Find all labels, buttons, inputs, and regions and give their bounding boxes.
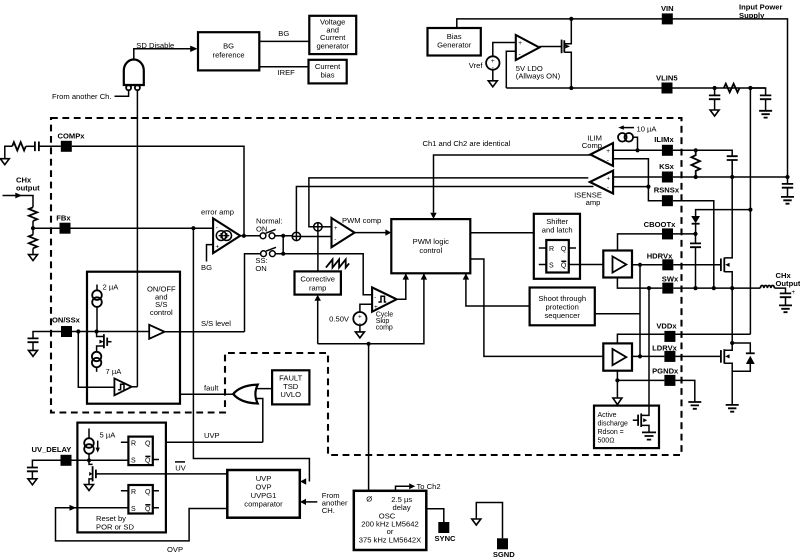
transistor LDO pass FET (562, 19, 572, 88)
svg-text:VDDx: VDDx (656, 322, 677, 331)
latch RS OVP (lower) (121, 485, 159, 514)
svg-text:sequencer: sequencer (544, 311, 580, 320)
svg-text:CBOOTx: CBOOTx (644, 220, 676, 229)
svg-text:SGND: SGND (493, 550, 515, 559)
current source 2 uA (92, 285, 102, 332)
svg-text:+: + (606, 175, 610, 182)
svg-text:SD Disable: SD Disable (136, 41, 174, 50)
svg-text:BG: BG (201, 263, 212, 272)
wire PWM logic to LDRV driver (470, 259, 603, 356)
wire shoot-through to PWM logic (arrow up) (466, 274, 530, 306)
node KS cap bottom (730, 175, 734, 179)
svg-text:amp: amp (586, 198, 601, 207)
ground (arrow) soft start cap (29, 350, 38, 356)
node common COMP node (281, 234, 285, 238)
wire HDRVx to high-side FET gate (673, 264, 721, 266)
ground (arrow) UV FET source (85, 485, 94, 491)
resistor VLIN5 filter (724, 84, 740, 93)
svg-text:ON: ON (256, 224, 267, 233)
svg-text:POR or SD: POR or SD (96, 523, 134, 532)
svg-text:discharge: discharge (598, 421, 628, 428)
wire ILIM comp output to PWM logic top (arrow down) (434, 155, 591, 213)
wire From another CH arrow into comparator (306, 501, 318, 503)
svg-text:+: + (215, 244, 219, 251)
pin KSx (659, 162, 675, 183)
wire VIN rail: bias generator top, along top, down right edge (457, 19, 788, 177)
ground (earth) low-side source (726, 405, 739, 412)
op-amp 5V LDO (516, 35, 540, 60)
node HDRV output (638, 263, 642, 267)
ground (arrow) below cap1 (710, 110, 719, 116)
transistor SS discharge FET (97, 332, 112, 352)
node ISENSE minus (646, 185, 650, 189)
wire UV_DELAY external (32, 460, 60, 467)
capacitor output (780, 289, 796, 305)
comparator Cycle Skip comp (372, 287, 397, 311)
wire BG (259, 40, 309, 42)
wire oscillator line to corrective ramp (arrow up) (317, 301, 319, 344)
pin FBx (60, 223, 71, 234)
current source 5 uA (84, 429, 94, 461)
pin SYNC (434, 522, 456, 543)
wire OSC line horizontal and riser into PWM logic (318, 274, 424, 344)
svg-text:generator: generator (316, 41, 349, 50)
wire current sense lower line into minus summing (296, 187, 593, 233)
wire 0.50V to cycle skip plus (360, 304, 372, 312)
wire CBOOTx to bootstrap node (673, 233, 696, 235)
transistor active discharge FET (633, 413, 649, 432)
pin SGND (493, 538, 515, 559)
wire summing to PWM comp minus input (301, 236, 332, 238)
node input rail to KS (785, 175, 789, 179)
svg-text:comp: comp (376, 325, 393, 332)
node VLIN5 rail diode tap (748, 208, 752, 212)
ground (arrow) COMPx network (0, 159, 9, 165)
svg-text:IREF: IREF (278, 68, 296, 77)
current source 7 uA (92, 352, 101, 372)
wire inductor to output cap (774, 288, 785, 293)
latch RS (shifter) (539, 240, 576, 273)
pin RSNSx (654, 186, 680, 207)
svg-text:COMPx: COMPx (58, 132, 86, 141)
node VIN-LDO junction (569, 17, 573, 21)
svg-text:Ø: Ø (366, 495, 372, 504)
wire To Ch2 (arrow) (396, 486, 410, 491)
svg-text:UV: UV (175, 463, 186, 472)
node FB sense tap (191, 226, 195, 230)
svg-text:-: - (216, 225, 218, 232)
diode bootstrap from VLIN5 (691, 210, 750, 234)
wire Vref to op-amp + (493, 43, 516, 57)
svg-text:ILIMx: ILIMx (654, 135, 674, 144)
wire summing node to corrective ramp (317, 231, 319, 271)
wire ILIMx external (673, 150, 732, 156)
ground (earth) below cap2 (759, 111, 772, 118)
summing node PWM comp plus (314, 223, 322, 231)
svg-text:HDRVx: HDRVx (647, 251, 673, 260)
pin ON/SSx (61, 326, 72, 337)
op-amp error amp (213, 218, 240, 253)
Bias Generator box (428, 28, 481, 56)
node SW cboot cap (693, 286, 697, 290)
svg-text:Active: Active (598, 412, 617, 419)
wire From another Ch. to left bubble (115, 90, 129, 96)
svg-text:Corrective: Corrective (300, 274, 335, 283)
node SW active-discharge tap (647, 286, 651, 290)
current source 10 uA (618, 133, 638, 150)
node KS resistor bottom (694, 175, 698, 179)
svg-text:10 µA: 10 µA (637, 125, 658, 134)
svg-text:Ch1 and Ch2 are identical: Ch1 and Ch2 are identical (423, 139, 511, 148)
arrow 5uA direction (97, 441, 99, 450)
svg-text:S: S (549, 263, 554, 270)
wire COMPx to error amp output node (72, 146, 244, 236)
svg-text:Q: Q (145, 458, 151, 465)
ground (arrow) below 0.50V (355, 332, 364, 338)
svg-text:-: - (334, 236, 336, 243)
wire FB to UVP/OVP comparator (193, 228, 309, 481)
IC channel dashed boundary (51, 118, 682, 455)
pin HDRVx (647, 251, 674, 270)
wire FAULT box to OR input (256, 388, 272, 390)
box UVP OVP UVPG1 comparator (227, 470, 299, 518)
node bootstrap (693, 232, 697, 236)
svg-text:output: output (16, 184, 40, 193)
svg-text:+: + (792, 289, 796, 296)
ground (arrow) below Vref (488, 81, 497, 87)
transistor low-side FET (721, 288, 732, 405)
ground (earth) active discharge (642, 432, 656, 439)
svg-text:bias: bias (321, 71, 335, 80)
wire ON/SSx external (33, 332, 61, 339)
node 10uA tap (635, 148, 639, 152)
wire VLIN5 rail down to VDD line (749, 88, 751, 334)
voltage source Vref (486, 56, 499, 71)
svg-text:BG: BG (223, 42, 234, 51)
svg-text:FBx: FBx (56, 213, 71, 222)
svg-text:SWx: SWx (662, 275, 679, 284)
svg-text:+: + (606, 148, 610, 155)
wire cap to COMPx pin (39, 145, 61, 147)
wire S/S level output (165, 331, 245, 333)
comparator ISENSE amp (590, 171, 613, 194)
svg-text:PWM comp: PWM comp (342, 216, 381, 225)
wire OVP feedback loop to latch S (arrow) (56, 508, 228, 541)
wire SW to active discharge FET (641, 288, 649, 415)
svg-text:Vref: Vref (469, 61, 484, 70)
box oscillator OSC (354, 491, 427, 550)
wire COMPx ground corner (5, 146, 12, 158)
wire shoot-through sense tee (595, 313, 640, 315)
node SW rsns (712, 286, 716, 290)
pin UV_DELAY (61, 455, 72, 466)
wire current sense upper line into plus summing (309, 178, 588, 227)
wire switch to summing node (275, 235, 292, 237)
node PGND tee (615, 378, 619, 382)
node SS line (281, 252, 285, 256)
node UV delay (87, 458, 91, 462)
svg-text:VIN: VIN (661, 4, 674, 13)
wire BG input to error amp (207, 245, 214, 262)
wire KSx line (613, 176, 787, 178)
wire AND output to BG reference with arrow (134, 49, 191, 60)
svg-text:From another Ch.: From another Ch. (52, 92, 112, 101)
wire op-amp output to FET gate (539, 46, 561, 48)
svg-text:fault: fault (204, 383, 219, 392)
wire comparator output to SD disable line (132, 386, 138, 388)
diode schottky parallel (732, 343, 755, 371)
wire ILIM comp plus to ILIMx (613, 149, 662, 151)
box Shifter and latch (534, 214, 580, 279)
voltage source 0.50V (353, 312, 366, 327)
sawtooth waveform symbol (326, 259, 349, 267)
node OSC tee (367, 342, 371, 346)
wire VDD to LDRV driver supply (617, 334, 664, 343)
transistor UV discharge FET (89, 460, 96, 484)
pin SWx (662, 275, 679, 294)
wire PGNDx external to ground (675, 380, 694, 402)
wire ILIM comp minus to ISENSE minus node (613, 159, 648, 187)
svg-text:ON/SSx: ON/SSx (52, 316, 81, 325)
comparator ON/SS threshold (hysteresis) (114, 378, 131, 395)
svg-text:+: + (374, 304, 378, 311)
svg-text:S: S (131, 458, 136, 465)
node LDO output (569, 86, 573, 90)
svg-text:+: + (518, 40, 522, 47)
svg-text:-: - (607, 185, 609, 192)
svg-text:KSx: KSx (659, 162, 675, 171)
wire 0.50V to ground (359, 325, 361, 332)
svg-text:(Allways ON): (Allways ON) (516, 72, 561, 81)
wire LDRV box return to PGND (616, 371, 618, 381)
ground (earth) input rail cap (781, 197, 794, 204)
svg-text:Q: Q (561, 246, 567, 253)
wire HDRV output to HDRVx (632, 264, 662, 266)
wire FBx line to error amp (33, 227, 213, 229)
capacitor soft start (28, 338, 39, 350)
svg-text:and latch: and latch (542, 225, 573, 234)
wire VLIN5 line (506, 87, 765, 89)
svg-text:OVP: OVP (167, 545, 183, 554)
svg-text:500Ω: 500Ω (598, 438, 615, 445)
capacitor UV delay (27, 468, 38, 479)
pin CBOOTx (644, 220, 676, 239)
wire OSC vertical to oscillator box (368, 344, 370, 491)
node error amp output (242, 234, 246, 238)
svg-text:Reset by: Reset by (96, 514, 126, 523)
svg-text:Output: Output (776, 279, 800, 288)
svg-text:R: R (131, 489, 136, 496)
svg-text:PWM logic: PWM logic (413, 237, 449, 246)
ground (arrow) UV delay cap (28, 479, 37, 485)
wire SWx external line (673, 287, 760, 289)
wire SGND hook (476, 503, 502, 539)
wire SS line to cycle skip comparator (275, 254, 372, 295)
wire ON/SSx into control (72, 331, 149, 333)
pin PGNDx (652, 367, 679, 386)
comparator ILIM Comp (590, 143, 613, 166)
summing node PWM comp minus (292, 232, 300, 240)
wire error amp output (240, 235, 260, 237)
svg-text:R: R (549, 246, 554, 253)
wire VDDx to VLIN5 rail (675, 333, 750, 335)
wire LDRV output (632, 355, 664, 357)
OR gate fault (mirrored) (233, 385, 258, 404)
ground (arrow) FB divider (29, 255, 38, 261)
wire ISENSE minus to RSNSx (613, 187, 662, 201)
wire HDRV/LDRV sense vertical to shoot-through (639, 265, 641, 357)
wire SW node line (617, 278, 662, 289)
wire CHx output feed with arrow (3, 196, 34, 208)
svg-text:-: - (374, 294, 376, 301)
node VLIN5 filter right (748, 86, 752, 90)
pin ILIMx (654, 135, 674, 156)
svg-text:0.50V: 0.50V (329, 314, 350, 323)
svg-text:7 µA: 7 µA (106, 367, 123, 376)
svg-text:RSNSx: RSNSx (654, 186, 680, 195)
wire OSC to SYNC (426, 509, 444, 522)
wire fault line (180, 393, 233, 395)
wire CBOOT to HDRV driver supply (618, 234, 663, 251)
svg-text:ON: ON (255, 264, 266, 273)
svg-text:375 kHz LM5642X: 375 kHz LM5642X (359, 536, 421, 545)
capacitor VLIN5 bypass 2 (750, 88, 771, 111)
box Active discharge (594, 406, 659, 449)
svg-text:Rdson =: Rdson = (598, 429, 624, 436)
svg-text:-: - (607, 157, 609, 164)
Voltage and Current generator box (309, 16, 356, 54)
svg-text:UV_DELAY: UV_DELAY (32, 445, 72, 454)
arrow 10 uA direction (623, 127, 634, 129)
wire common node down to SS switch line (282, 236, 284, 254)
resistor FB divider upper (29, 207, 37, 221)
wire PGND line (617, 379, 664, 381)
pin VLIN5 (656, 74, 678, 94)
capacitor ILIM-KS filter (727, 156, 738, 177)
node ON/SS comparator tap (76, 329, 80, 333)
ground (earth) PGND (688, 402, 701, 409)
wire PWM comp output to PWM logic (355, 232, 387, 234)
AND gate (SD disable, inverted inputs) (124, 60, 144, 91)
pin VDDx (656, 322, 677, 342)
svg-text:S/S level: S/S level (201, 319, 231, 328)
capacitor bootstrap (690, 234, 701, 288)
svg-text:control: control (150, 308, 173, 317)
wire UV-bar line to FET gate (96, 473, 227, 475)
box FAULT TSD UVLO (272, 370, 309, 404)
label UV bar (175, 462, 187, 472)
wire resistor to cap (26, 145, 35, 147)
svg-text:SYNC: SYNC (434, 534, 456, 543)
svg-text:S: S (131, 506, 136, 513)
svg-text:Comp: Comp (582, 141, 602, 150)
wire to FB node (32, 221, 34, 235)
pin LDRVx (652, 343, 678, 362)
svg-text:-: - (519, 51, 521, 58)
comparator PWM comp (332, 218, 355, 247)
buffer S/S level (149, 325, 164, 339)
wire IREF (259, 66, 308, 68)
svg-text:Q: Q (145, 506, 151, 513)
node ON/SS 2uA tap (95, 329, 99, 333)
svg-text:ramp: ramp (309, 283, 326, 292)
wire op-amp feedback from VLIN5 (506, 51, 516, 88)
svg-text:5 µA: 5 µA (100, 431, 117, 440)
capacitor input rail (782, 177, 793, 197)
Current bias box (309, 60, 347, 84)
switch Normal: ON (260, 229, 276, 238)
capacitor COMPx series (35, 142, 39, 152)
svg-text:+: + (334, 225, 338, 232)
node SW fet source (730, 286, 734, 290)
resistor COMPx network (12, 142, 26, 150)
svg-text:Bias: Bias (447, 32, 462, 41)
svg-text:Generator: Generator (437, 41, 472, 50)
svg-text:Q: Q (145, 489, 151, 496)
wire PWM logic to shifter (470, 232, 534, 234)
capacitor VLIN5 bypass 1 (709, 88, 720, 110)
svg-text:control: control (419, 246, 442, 255)
wire LDRVx to low-side FET gate (675, 355, 721, 357)
ground (earth) output cap (779, 305, 792, 312)
node LDRV output (638, 354, 642, 358)
svg-text:Q: Q (561, 263, 567, 270)
resistor ILIM sense filter (691, 150, 700, 177)
svg-text:LDRVx: LDRVx (652, 343, 678, 352)
wire high-side FET drain from KS line (731, 160, 733, 177)
node VLIN5 filter left (713, 86, 717, 90)
switch SS: ON (261, 247, 276, 256)
BG reference box (198, 32, 259, 70)
box Corrective ramp (295, 271, 341, 294)
wire PGND tee to active discharge (open arrow) (616, 380, 618, 398)
wire latch Qbar to HDRV driver (569, 264, 604, 266)
wire UVP to OR input (256, 399, 263, 443)
svg-text:VLIN5: VLIN5 (656, 74, 678, 83)
node FB divider (31, 226, 35, 230)
node low-side drain diode tap (730, 341, 734, 345)
latch RS UVP (upper) (121, 437, 159, 466)
wire summing to PWM comp plus input (322, 226, 331, 228)
node ILIM resistor top (694, 148, 698, 152)
wire SD disable vertical from right bubble down to fault node (136, 90, 138, 387)
svg-text:PGNDx: PGNDx (652, 367, 679, 376)
wire RSNSx external to SW node (673, 201, 714, 288)
wire S/S level riser and SS switch feed (245, 254, 261, 332)
ground (arrow) SGND (472, 519, 481, 525)
svg-text:UVLO: UVLO (280, 390, 301, 399)
svg-text:error amp: error amp (201, 208, 234, 217)
svg-text:Q: Q (145, 440, 151, 447)
pin VIN (661, 4, 674, 24)
svg-text:CH.: CH. (322, 506, 335, 515)
wire UV_DELAY to latch S (72, 459, 129, 461)
svg-text:Supply: Supply (739, 11, 765, 20)
pin COMPx (61, 141, 72, 152)
wire Vref to ground (492, 70, 494, 81)
svg-text:reference: reference (213, 51, 245, 60)
box ON/OFF and S/S control (87, 272, 180, 404)
box Shoot through protection sequencer (530, 288, 595, 326)
svg-text:comparator: comparator (244, 499, 283, 508)
wire cycle skip output to PWM logic (397, 274, 406, 299)
svg-text:To Ch2: To Ch2 (417, 482, 441, 491)
svg-text:R: R (131, 440, 136, 447)
box HDRV driver buffer (603, 251, 632, 278)
wire UVP line from latch Q (153, 441, 263, 443)
wire to ground (32, 248, 34, 254)
box PWM logic control (391, 219, 470, 273)
